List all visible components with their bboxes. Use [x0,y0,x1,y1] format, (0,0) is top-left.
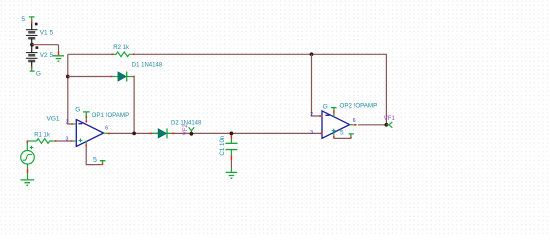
source VG1 waveform [23,155,32,161]
svg-text:G: G [323,103,328,110]
jumper 5 pin (red, OP1 bottom) [102,163,104,165]
svg-text:G: G [75,107,80,114]
capacitor C1 pin bottom (red) [230,155,232,160]
op-amp OP2 power pin top jumper [331,108,337,111]
battery V1 [26,30,38,39]
node probe VF2 dot [190,132,194,136]
svg-text:G: G [36,71,41,78]
source VG1 plus mark [30,146,33,149]
diode D2 pin right (red) [172,132,175,134]
resistor R1 [37,139,55,144]
resistor R1 pin right (red) [55,140,57,142]
svg-text:VF1: VF1 [384,116,396,122]
diode D2 cathode bar [166,128,168,138]
jumper +5 pin (red) [31,21,33,24]
wire V1 top stem [31,23,33,30]
wire feedback left vertical [68,54,71,124]
svg-text:5: 5 [340,129,344,136]
capacitor C1 [226,143,238,149]
resistor R2 pin right (red) [133,53,135,55]
source VG1 top lead [26,143,28,150]
svg-text:2: 2 [310,112,313,118]
ground (VG1) [20,180,34,185]
svg-text:C1 10n: C1 10n [219,135,226,156]
wire OP2 output to VF1 [358,124,386,126]
ground (C1) [226,172,238,178]
node junction VF1 [385,123,389,127]
node junction V1/V2 [30,43,34,47]
ground pin (red) [58,52,60,56]
wire R2 to feedback corner [135,54,386,125]
svg-text:5: 5 [93,157,97,164]
diode D1 pin right (red) [133,76,135,78]
diode D1 cathode bar [126,72,128,82]
svg-text:OP2 !OPAMP: OP2 !OPAMP [340,102,378,109]
node junction C1 tap [230,132,234,136]
op-amp OP1 power pin top jumper [83,112,90,116]
capacitor C1 pin top (red) [230,135,232,139]
svg-text:R2 1k: R2 1k [113,45,130,51]
diode D2 lead left [152,132,158,134]
svg-text:VF2: VF2 [183,124,189,136]
svg-text:V2 5: V2 5 [40,52,54,59]
node junction D1 tap [66,75,70,79]
resistor R2 pin left (red) [111,53,113,55]
op-amp OP2 plus mark [332,129,336,133]
svg-text:6: 6 [353,118,356,124]
probe VF1 [386,122,392,128]
wire D1 left [68,76,110,78]
diode D1 lead left [113,76,118,78]
wire V2 top stem [31,45,33,53]
wire V1 bottom stem [31,38,33,45]
svg-text:3: 3 [310,130,313,136]
op-amp OP1 plus mark [79,139,83,143]
svg-text:5: 5 [21,16,25,23]
svg-text:D1 1N4148: D1 1N4148 [132,63,163,69]
diode D1 pin left (red) [110,76,112,78]
wire ground drop (vertical) [58,45,60,52]
jumper -5 symbol (below V2) [30,69,35,71]
wire OP2 V- to jumper [334,137,351,139]
op-amp OP2 [322,111,350,138]
svg-text:3: 3 [66,137,69,143]
op-amp OP1 output lead [104,132,108,134]
op-amp OP2 pin 2 lead [319,115,322,117]
capacitor C1 lead top [230,139,232,144]
diode D2 lead right [167,132,172,134]
capacitor C1 lead bottom [230,150,232,156]
op-amp OP2 minus mark [325,114,329,116]
diode D2 [158,129,166,138]
svg-text:6: 6 [105,125,108,131]
op-amp OP1 [76,120,103,147]
op-amp OP1 pin 3 lead [71,140,73,142]
source VG1 [21,151,35,165]
wire C1 to ground [230,160,232,168]
resistor R2 [114,52,133,57]
wire R1 to OP1 pin3 [57,140,71,142]
node junction feedback tap [310,52,314,56]
diode D2 pin left (red) [149,132,152,134]
op-amp OP2 pin 3 lead [320,132,322,134]
wire feedback down to OP2 pin2 [312,54,320,116]
jumper 5 symbol (OP2 bottom) [349,134,354,137]
wire OP1 output to OP2 pin3 [110,132,321,134]
wire D1 down to output [133,77,135,134]
svg-text:V1 5: V1 5 [40,30,54,37]
op-amp OP1 pin 2 lead [71,123,73,125]
battery V1 plus marker [35,23,38,26]
wire VG1 to R1 [27,140,36,142]
jumper -5 pin (red) [31,67,33,69]
svg-text:VG1: VG1 [47,116,60,123]
source VG1 bottom lead [27,164,29,169]
battery V2 plus marker [36,46,39,49]
ground (mid supply) [53,56,64,61]
op-amp OP1 power pin bottom [85,141,87,145]
svg-text:R1 1k: R1 1k [34,133,51,139]
wire junction to ground (horizontal) [32,44,59,46]
jumper 5 pin (red, OP2 bottom) [350,137,352,139]
op-amp OP2 power pin bottom [333,133,335,136]
wire OP1 V- to jumper [86,147,101,165]
diode D1 [118,72,126,81]
node junction D1 at output [132,132,136,136]
svg-text:OP1 !OPAMP: OP1 !OPAMP [92,112,130,119]
diode D1 lead right [127,76,133,78]
jumper +5 power symbol (top) [29,17,35,21]
op-amp OP1 minus mark [78,123,82,125]
jumper 5 symbol (OP1 bottom) [100,161,106,164]
wire V2 bottom stem [31,61,33,67]
wire R2 net left corner [68,53,111,55]
svg-text:2: 2 [66,120,69,126]
battery V2 [26,53,38,61]
op-amp OP2 output lead [350,124,354,126]
probe VF2 [189,127,195,133]
